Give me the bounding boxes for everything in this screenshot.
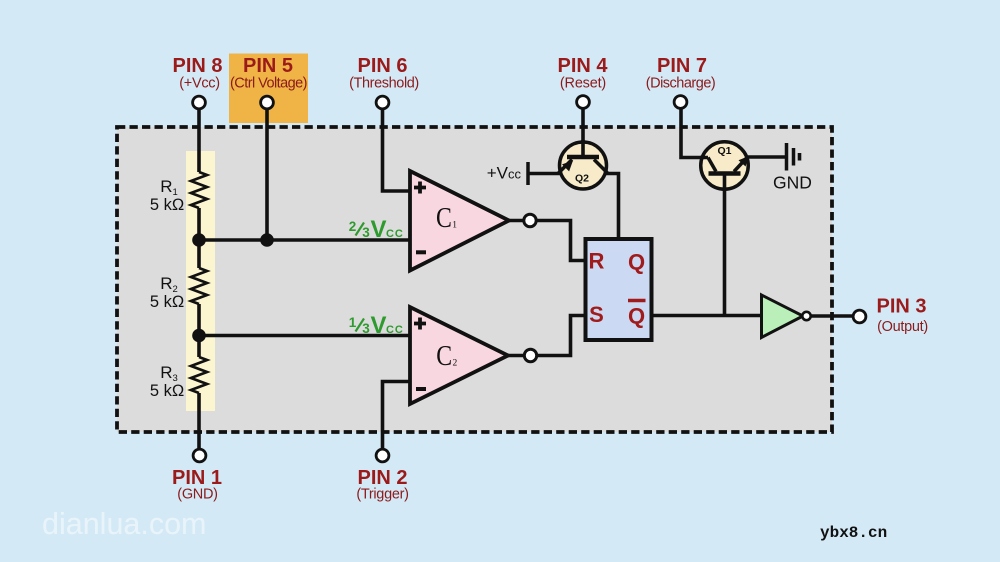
transistor Q1 xyxy=(701,142,749,190)
C2 minus input mark xyxy=(416,387,426,391)
node junction R1-R2 xyxy=(192,233,206,247)
resistor ladder yellow strip xyxy=(186,151,215,411)
svg-text:Q: Q xyxy=(628,249,645,274)
pin 8 terminal xyxy=(193,96,206,109)
svg-text:(Ctrl Voltage): (Ctrl Voltage) xyxy=(230,76,307,92)
svg-text:2: 2 xyxy=(349,219,357,234)
wire pin8 vertical xyxy=(197,109,201,173)
pin 1 terminal xyxy=(193,449,206,462)
pin 4 terminal xyxy=(577,96,590,109)
svg-text:ybx8.cn: ybx8.cn xyxy=(820,524,887,542)
svg-text:Q1: Q1 xyxy=(717,145,731,157)
wire pin6 to C1 non-inverting input xyxy=(383,109,411,192)
svg-text:C: C xyxy=(436,339,452,372)
svg-text:3: 3 xyxy=(362,225,370,240)
IC boundary dashed box xyxy=(117,127,832,432)
svg-text:V: V xyxy=(371,312,387,339)
svg-text:5 kΩ: 5 kΩ xyxy=(150,196,184,214)
svg-text:+Vcc: +Vcc xyxy=(487,164,522,183)
svg-text:Q: Q xyxy=(628,303,645,328)
wire +Vcc to Q2 emitter xyxy=(528,172,560,176)
svg-text:5 kΩ: 5 kΩ xyxy=(150,382,184,400)
wire pin5 vertical xyxy=(265,109,269,241)
svg-text:5 kΩ: 5 kΩ xyxy=(150,293,184,311)
pin 6 terminal xyxy=(376,96,389,109)
node junction pin5/2-3Vcc xyxy=(260,233,274,247)
wire Q2 collector to flip-flop top xyxy=(605,174,619,238)
resistor R1 xyxy=(191,172,207,208)
svg-text:PIN 6: PIN 6 xyxy=(357,55,407,77)
wire 1/3Vcc node to C2 non-inverting input xyxy=(199,334,410,338)
pin 3 terminal xyxy=(853,310,866,323)
svg-text:GND: GND xyxy=(773,173,812,193)
wire buffer to pin3 xyxy=(806,314,853,318)
wire C2 output to S input xyxy=(508,316,584,356)
flip-flop U1 xyxy=(586,239,652,340)
pin 7 terminal xyxy=(674,96,687,109)
wire Qbar output to buffer xyxy=(653,314,762,318)
C1 output bubble xyxy=(524,214,536,226)
svg-text:PIN 5: PIN 5 xyxy=(243,55,293,77)
svg-text:PIN 8: PIN 8 xyxy=(172,55,222,77)
wire Q1 emitter to ground xyxy=(748,155,787,159)
wire R3 to pin1 xyxy=(197,393,201,450)
comparator C1 xyxy=(410,171,509,271)
svg-text:Q2: Q2 xyxy=(575,173,589,185)
wire pin2 to C2 inverting input xyxy=(383,382,411,450)
svg-text:(Output): (Output) xyxy=(877,319,928,335)
resistor R2 xyxy=(191,268,207,304)
wire R1 to R2 xyxy=(197,208,201,268)
svg-text:(GND): (GND) xyxy=(177,487,217,503)
wire R2 to R3 xyxy=(197,304,201,357)
svg-text:PIN 4: PIN 4 xyxy=(557,55,608,77)
resistor R3 xyxy=(191,357,207,393)
svg-text:3: 3 xyxy=(362,321,370,336)
C1 minus input mark xyxy=(416,250,426,254)
node 2/3 Vcc label xyxy=(349,216,404,243)
svg-text:V: V xyxy=(371,216,387,243)
svg-text:(+Vcc): (+Vcc) xyxy=(179,76,220,92)
wire pin7 to Q1 collector xyxy=(681,109,708,158)
svg-text:2: 2 xyxy=(453,359,458,369)
node junction R2-R3 xyxy=(192,329,206,343)
C2 plus input mark xyxy=(414,318,426,330)
output buffer xyxy=(762,295,804,338)
wire Q1 base down to output line xyxy=(723,175,727,316)
svg-text:S: S xyxy=(589,302,604,327)
svg-text:(Trigger): (Trigger) xyxy=(356,487,408,503)
pin 5 terminal xyxy=(261,96,274,109)
svg-text:CC: CC xyxy=(386,324,404,336)
svg-text:1: 1 xyxy=(349,315,357,330)
pin 5 orange highlight xyxy=(229,54,308,124)
wire C1 output to R input xyxy=(509,221,584,261)
wire 2/3Vcc node to C1 inverting input xyxy=(199,238,410,242)
pin 2 terminal xyxy=(376,449,389,462)
svg-text:dianlua.com: dianlua.com xyxy=(42,507,206,541)
svg-text:(Threshold): (Threshold) xyxy=(349,76,419,92)
svg-text:1: 1 xyxy=(452,221,457,231)
+Vcc supply bar xyxy=(526,162,530,185)
svg-text:(Reset): (Reset) xyxy=(560,76,606,92)
svg-text:CC: CC xyxy=(386,228,404,240)
C1 plus input mark xyxy=(414,182,426,194)
node 1/3 Vcc label xyxy=(349,312,404,339)
transistor Q2 xyxy=(560,142,607,189)
svg-text:PIN 7: PIN 7 xyxy=(657,55,707,77)
comparator C2 xyxy=(410,307,508,404)
buffer inversion bubble xyxy=(802,312,810,320)
svg-text:(Discharge): (Discharge) xyxy=(646,76,715,92)
wire pin4 to Q2 base xyxy=(581,109,585,158)
ground xyxy=(785,143,789,171)
svg-text:PIN 3: PIN 3 xyxy=(876,296,926,318)
svg-text:C: C xyxy=(436,201,452,234)
C2 output bubble xyxy=(524,349,536,361)
svg-text:R: R xyxy=(589,249,605,274)
